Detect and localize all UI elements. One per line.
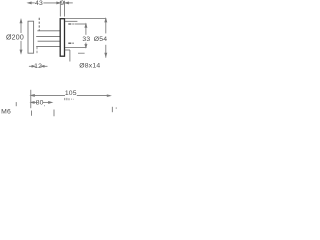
hub outer line top [37, 30, 60, 32]
boss hidden dash lower [68, 42, 73, 44]
boss bottom edge [65, 49, 70, 51]
boss top edge + extension [65, 20, 77, 22]
dimension 9 outside arrow [65, 2, 73, 4]
dimension Ø54 lower segment with down arrow [105, 45, 107, 58]
break marks above 80 line [65, 98, 74, 100]
svg-text:105: 105 [65, 90, 77, 97]
dimension Ø200 upper segment with up arrow [20, 20, 22, 54]
long extension line from flange top (for Ø54) [65, 18, 106, 20]
svg-text:33: 33 [82, 36, 90, 43]
stray dot below 80 [44, 105, 46, 106]
boss hidden dash upper [68, 23, 73, 25]
svg-text:Ø8x14: Ø8x14 [79, 63, 100, 70]
centerline tick bottom right [111, 107, 113, 112]
svg-text:M6: M6 [1, 108, 11, 115]
dimension 105 line with arrows [31, 95, 110, 97]
svg-text:Ø200: Ø200 [6, 35, 24, 42]
hidden feature dashed line upper [38, 18, 40, 31]
dimension 80 right segment with arrow [43, 101, 52, 103]
svg-text:12: 12 [34, 63, 42, 70]
hub outer line bottom [36, 45, 60, 47]
dimension 33 upper segment with up arrow [85, 24, 87, 47]
svg-text:9: 9 [60, 0, 64, 7]
small dot mark [115, 107, 117, 109]
svg-text:80: 80 [36, 100, 44, 107]
extension line 9 left [59, 1, 61, 17]
extension line for 33 top [75, 23, 87, 25]
hidden feature dashed line lower [36, 47, 38, 54]
svg-text:43: 43 [35, 0, 43, 7]
dimension 33 lower segment with down arrow [85, 43, 87, 48]
extension line 9 right [64, 1, 66, 17]
small dash near Ø8x14 [78, 52, 85, 54]
centerline tick bottom left [30, 111, 32, 116]
dimension Ø54 upper segment with up arrow [105, 19, 107, 58]
centerline tick bottom mid [53, 110, 55, 117]
dimension 80 left segment with arrow [31, 102, 52, 104]
extension line bottom left [30, 90, 32, 108]
M6 leader tick [15, 102, 17, 106]
shaft line top [36, 36, 60, 38]
svg-text:Ø54: Ø54 [94, 36, 107, 43]
flange plate rectangle [60, 19, 64, 57]
extension line for 33 bottom [65, 47, 87, 49]
disc (wheel Ø200) side view rectangle [28, 21, 34, 53]
dimension Ø200 lower segment with down arrow [20, 41, 22, 53]
dimension 12 right segment [42, 65, 48, 67]
shaft line bottom [38, 40, 61, 42]
dimension 12 left segment [29, 66, 48, 68]
boss right projection line [69, 50, 71, 62]
top dimension 43: right segment with arrow [43, 2, 59, 4]
top dimension 43: left segment with arrow [28, 2, 60, 4]
